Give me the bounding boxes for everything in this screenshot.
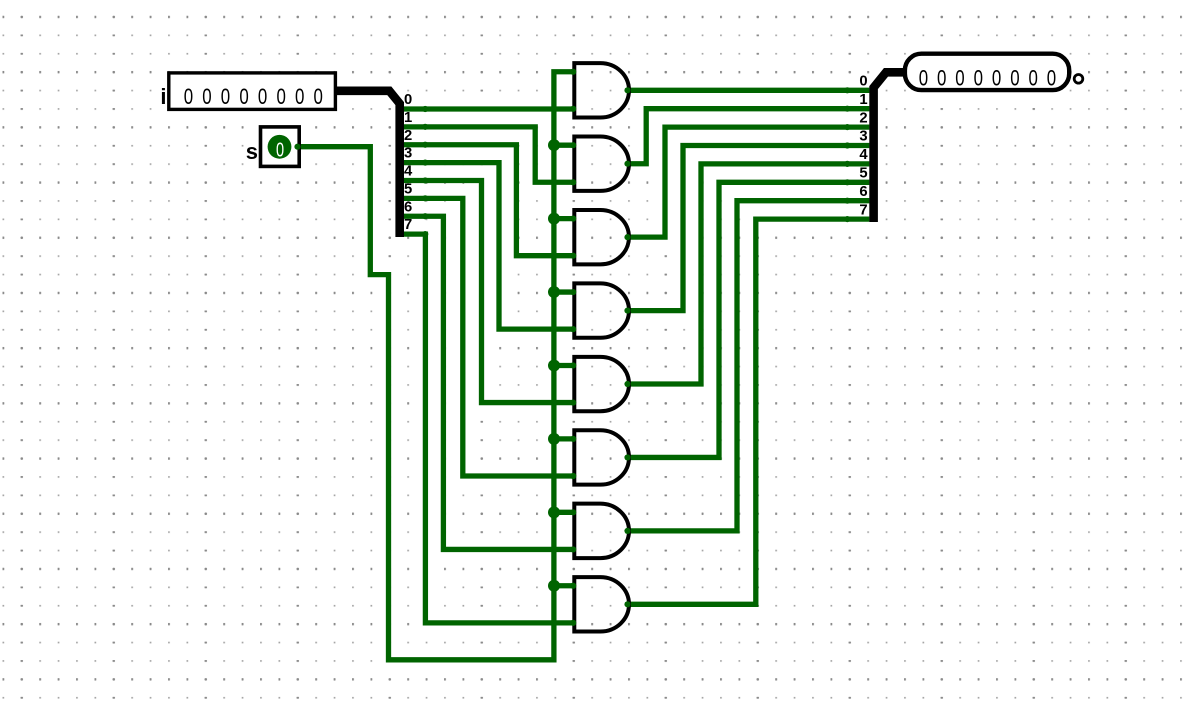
input pin S (1-bit toggle) <box>261 127 300 166</box>
wire splitter branch 5 to gate U6 lower input <box>402 198 574 476</box>
junction on select line at gate U5 <box>548 359 560 371</box>
port dot gate U8 output <box>624 601 630 607</box>
port dot splitter SP2 branch 3 <box>844 142 850 148</box>
junction on select line at gate U8 <box>548 580 560 592</box>
port dot splitter SP1 branch 1 <box>422 124 428 130</box>
label o (ring) <box>1074 75 1083 84</box>
wire gate U6 output to output splitter branch 5 <box>629 182 869 457</box>
svg-text:0: 0 <box>1047 66 1056 91</box>
port dot gate U7 output <box>624 528 630 534</box>
junction on select line at gate U7 <box>548 506 560 518</box>
port dot splitter SP2 branch 6 <box>844 198 850 204</box>
svg-text:0: 0 <box>221 85 230 110</box>
port dot gate U2 input 1 <box>570 142 576 148</box>
port dot splitter SP2 branch 1 <box>844 106 850 112</box>
wire splitter branch 1 to gate U2 lower input <box>402 127 574 182</box>
wire splitter branch 2 to gate U3 lower input <box>402 145 574 256</box>
svg-text:3: 3 <box>859 129 867 145</box>
AND gate U1 <box>574 63 629 117</box>
port dot splitter SP2 branch 5 <box>844 179 850 185</box>
bus wire from splitter SP2 to pin O <box>874 72 905 222</box>
AND gate U8 <box>574 577 629 631</box>
svg-text:0: 0 <box>276 85 285 110</box>
wire stub to gate U5 top input <box>554 363 574 368</box>
svg-text:0: 0 <box>239 85 248 110</box>
svg-text:0: 0 <box>937 66 946 91</box>
wire stub to gate U6 top input <box>554 436 574 441</box>
wire gate U2 output to output splitter branch 1 <box>629 109 869 164</box>
port dot gate U5 output <box>624 381 630 387</box>
input pin I (8-bit) <box>169 73 336 110</box>
svg-text:2: 2 <box>859 110 867 126</box>
svg-text:7: 7 <box>404 217 412 233</box>
port dot gate U6 input 1 <box>570 436 576 442</box>
port dot splitter SP1 branch 6 <box>422 213 428 219</box>
port dot gate U3 input 1 <box>570 216 576 222</box>
port dot gate U2 input 2 <box>570 179 576 185</box>
wire gate U5 output to output splitter branch 4 <box>629 164 869 384</box>
wire stub to gate U8 top input <box>554 583 574 588</box>
junction on select line at gate U4 <box>548 286 560 298</box>
svg-text:6: 6 <box>404 199 412 215</box>
AND gate U7 <box>574 504 629 558</box>
port dot gate U3 input 2 <box>570 253 576 259</box>
svg-text:4: 4 <box>859 147 868 163</box>
port dot gate U1 output <box>624 87 630 93</box>
svg-text:1: 1 <box>859 92 867 108</box>
wire gate U4 output to output splitter branch 3 <box>629 146 869 311</box>
port dot gate U4 output <box>624 307 630 313</box>
svg-text:6: 6 <box>859 184 867 200</box>
AND gate U3 <box>574 210 629 264</box>
wire gate U3 output to output splitter branch 2 <box>629 127 869 237</box>
port dot gate U3 output <box>624 234 630 240</box>
port dot gate U6 input 2 <box>570 473 576 479</box>
wire splitter branch 4 to gate U5 lower input <box>402 180 574 402</box>
svg-text:2: 2 <box>404 128 412 144</box>
output pin O (8-bit) <box>905 54 1069 91</box>
port dot gate U5 input 1 <box>570 362 576 368</box>
port dot gate U8 input 2 <box>570 620 576 626</box>
port dot splitter SP1 branch 5 <box>422 195 428 201</box>
svg-text:0: 0 <box>992 66 1001 91</box>
AND gate U2 <box>574 137 629 191</box>
wire stub to gate U4 top input <box>554 289 574 294</box>
port dot splitter SP1 branch 7 <box>422 231 428 237</box>
svg-text:s: s <box>246 139 258 164</box>
junction on select line at gate U2 <box>548 139 560 151</box>
svg-text:3: 3 <box>404 146 412 162</box>
port dot gate U4 input 1 <box>570 289 576 295</box>
bus wire from pin I to splitter SP1 <box>335 91 400 237</box>
svg-text:i: i <box>160 84 166 109</box>
wire gate U1 output to output splitter branch 0 <box>629 88 869 93</box>
port dot gate U4 input 2 <box>570 326 576 332</box>
wire select line from pin S <box>297 72 574 660</box>
port dot gate U1 input 2 <box>570 106 576 112</box>
AND gate U5 <box>574 357 629 411</box>
wire gate U8 output to output splitter branch 7 <box>629 219 869 604</box>
svg-text:0: 0 <box>1010 66 1019 91</box>
junction on select line at gate U3 <box>548 213 560 225</box>
AND gate U4 <box>574 283 629 337</box>
wire splitter branch 6 to gate U7 lower input <box>402 216 574 549</box>
svg-text:1: 1 <box>404 110 412 126</box>
port dot splitter SP2 branch 4 <box>844 161 850 167</box>
svg-text:0: 0 <box>295 85 304 110</box>
svg-text:0: 0 <box>919 66 928 91</box>
port dot gate U2 output <box>624 161 630 167</box>
port dot gate U7 input 1 <box>570 509 576 515</box>
port dot gate U7 input 2 <box>570 546 576 552</box>
wire splitter branch 3 to gate U4 lower input <box>402 163 574 330</box>
svg-text:0: 0 <box>955 66 964 91</box>
port dot splitter SP1 branch 0 <box>422 106 428 112</box>
port dot splitter SP2 branch 0 <box>844 87 850 93</box>
svg-text:0: 0 <box>258 85 267 110</box>
svg-text:0: 0 <box>1029 66 1038 91</box>
port dot gate U1 input 1 <box>570 69 576 75</box>
port dot pin S output <box>294 144 300 150</box>
svg-text:5: 5 <box>859 166 867 182</box>
wire stub to gate U7 top input <box>554 510 574 515</box>
svg-text:0: 0 <box>974 66 983 91</box>
junction on select line at gate U6 <box>548 433 560 445</box>
port dot splitter SP2 branch 7 <box>844 216 850 222</box>
wire gate U7 output to output splitter branch 6 <box>629 201 869 531</box>
svg-text:7: 7 <box>859 202 867 218</box>
wire stub to gate U2 top input <box>554 143 574 148</box>
port dot gate U5 input 2 <box>570 399 576 405</box>
svg-text:0: 0 <box>314 85 323 110</box>
svg-text:0: 0 <box>276 138 284 161</box>
wire splitter branch 0 to gate U1 lower input <box>402 106 574 111</box>
port dot splitter SP1 branch 3 <box>422 160 428 166</box>
port dot gate U6 output <box>624 454 630 460</box>
port dot gate U8 input 1 <box>570 583 576 589</box>
wire splitter branch 7 to gate U8 lower input <box>402 234 574 623</box>
svg-text:4: 4 <box>404 164 413 180</box>
port dot splitter SP2 branch 2 <box>844 124 850 130</box>
svg-text:5: 5 <box>404 181 412 197</box>
svg-text:0: 0 <box>184 85 193 110</box>
port dot splitter SP1 branch 2 <box>422 142 428 148</box>
AND gate U6 <box>574 430 629 484</box>
port dot splitter SP1 branch 4 <box>422 177 428 183</box>
wire stub to gate U3 top input <box>554 216 574 221</box>
svg-text:0: 0 <box>404 92 412 108</box>
svg-text:0: 0 <box>202 85 211 110</box>
svg-text:0: 0 <box>859 74 867 90</box>
